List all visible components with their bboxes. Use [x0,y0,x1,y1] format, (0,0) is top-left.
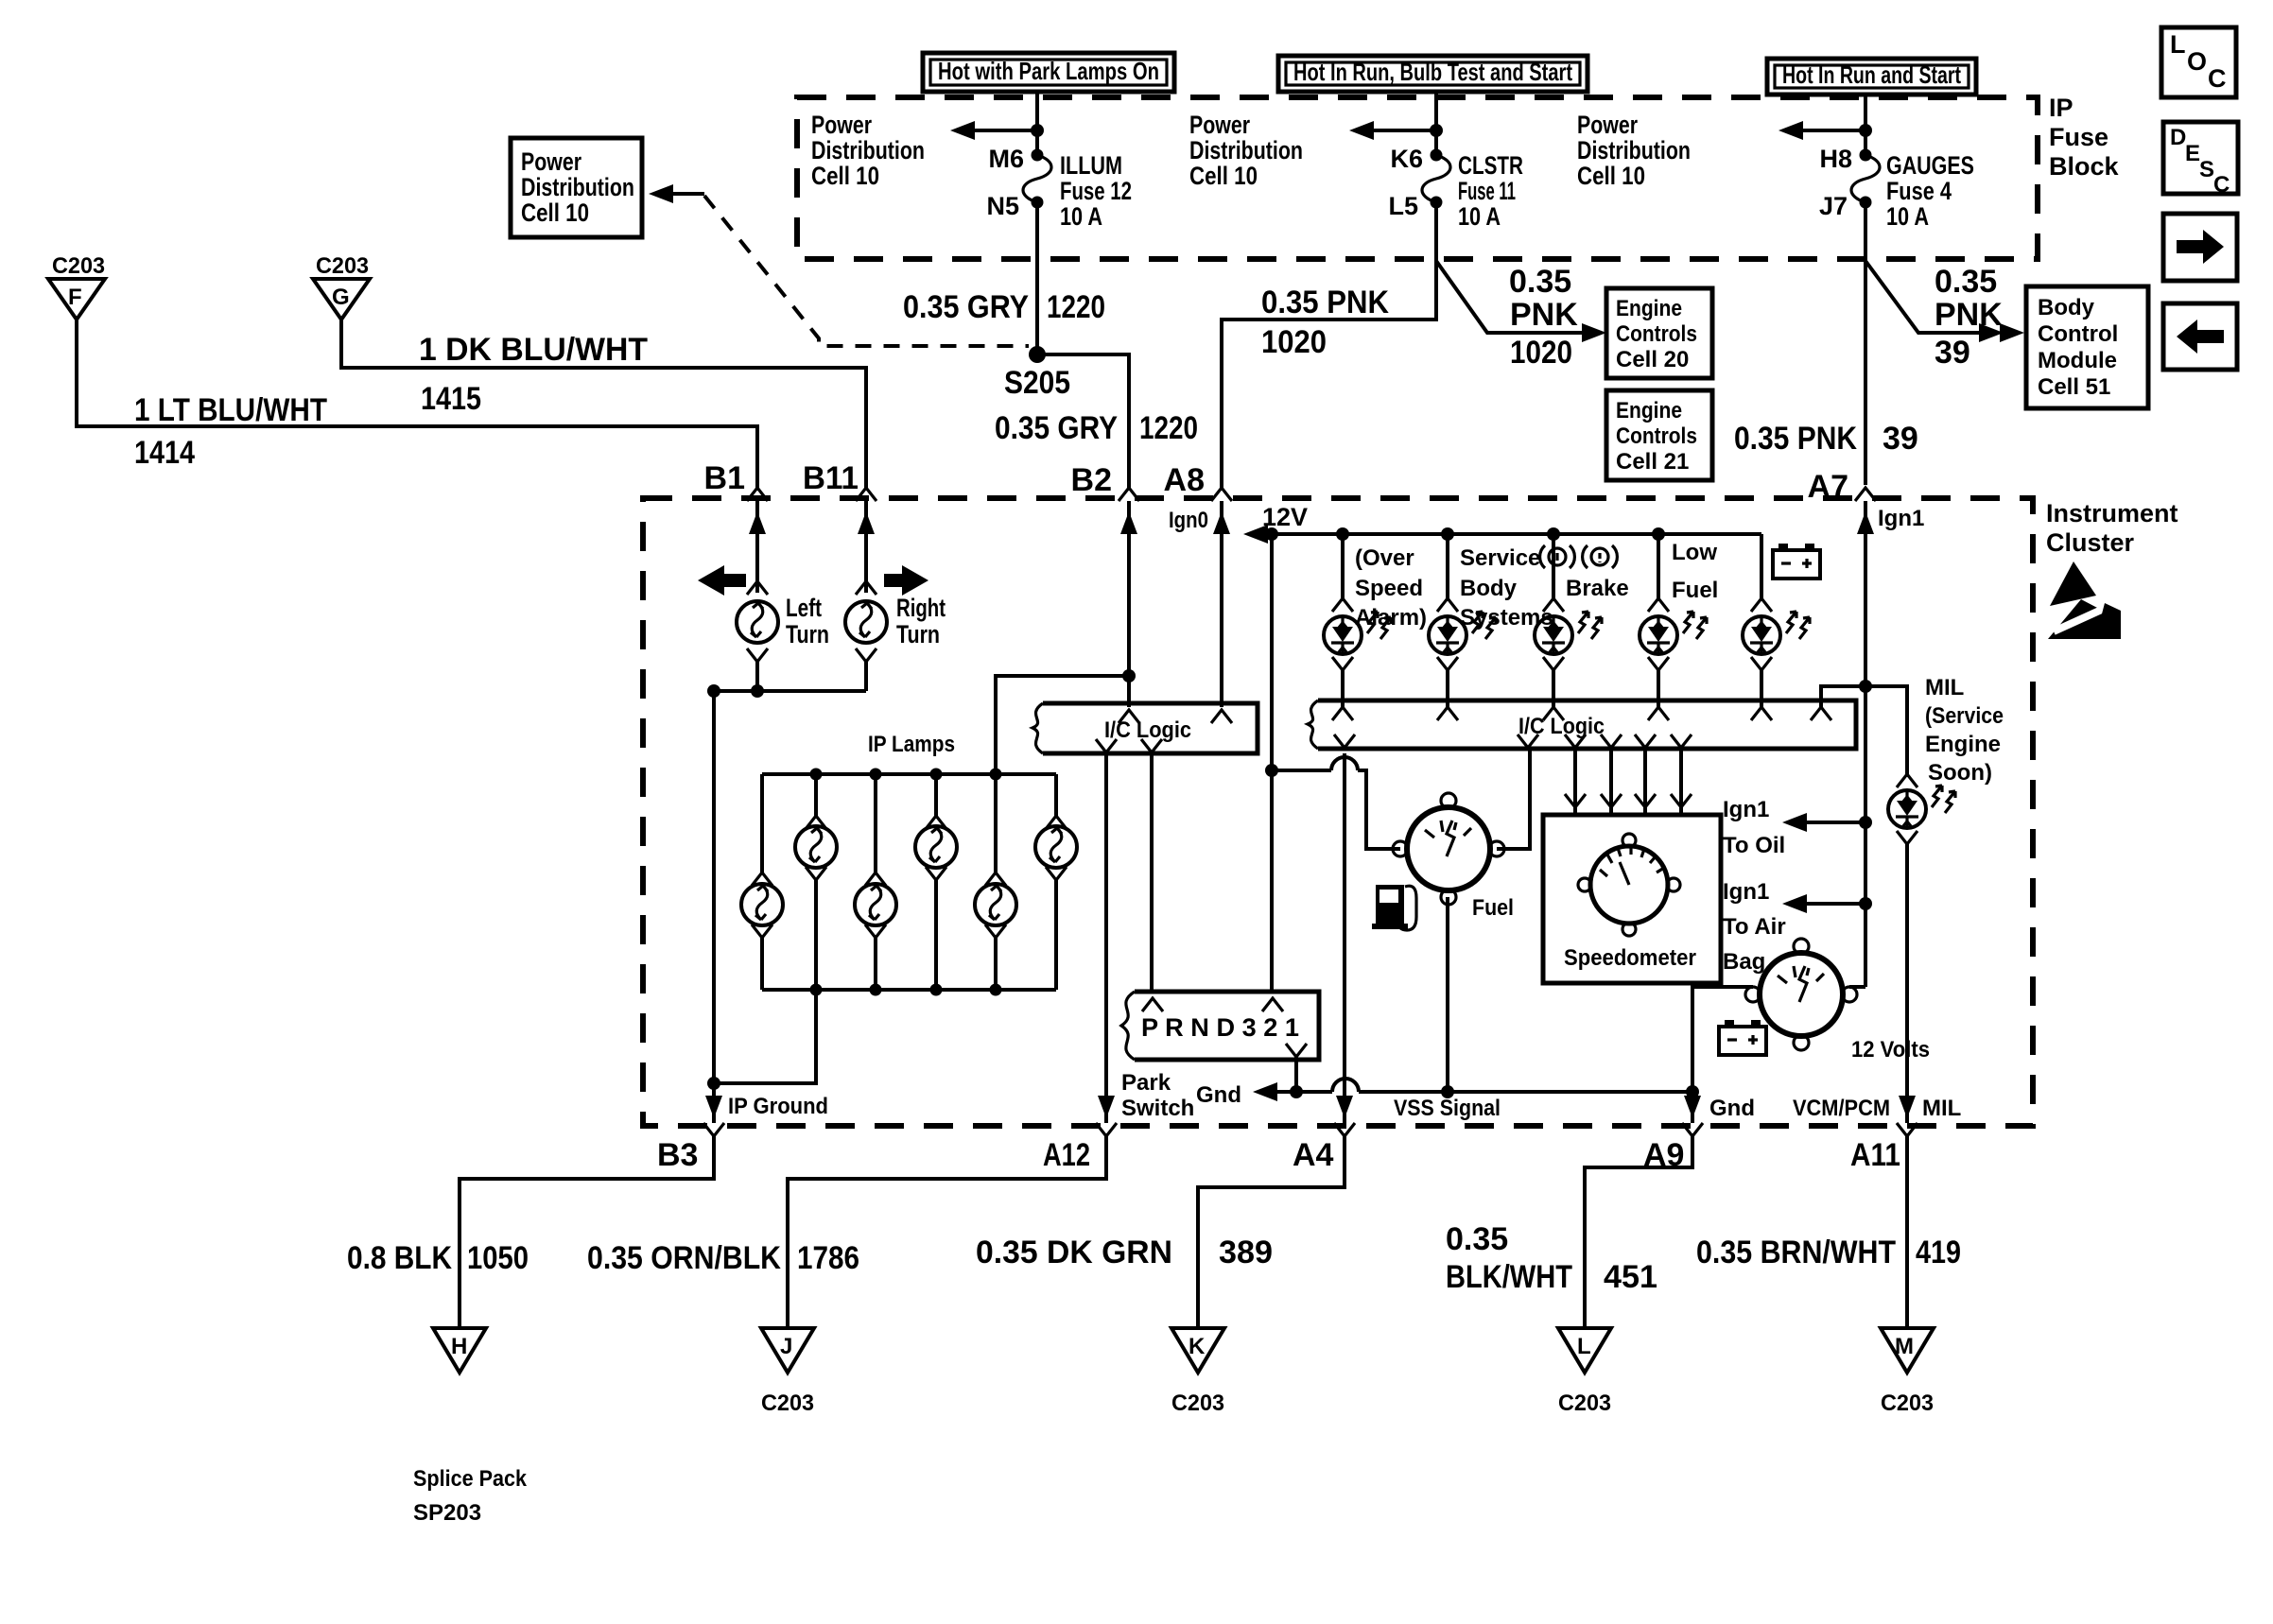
svg-text:C: C [2208,64,2227,93]
svg-text:Hot In Run and Start: Hot In Run and Start [1782,60,1961,89]
pin A12 [1043,1123,1117,1173]
junction dots turn ground [707,684,764,698]
label CLSTR Fuse 11 10 A [1458,151,1523,231]
svg-text:C203: C203 [761,1391,814,1416]
label 0.35 DK GRN 389 [976,1235,1273,1270]
svg-text:D: D [2170,125,2186,150]
box Body Control Module Cell 51 [2026,286,2148,408]
wire A4 to connector K [1198,1133,1345,1328]
label Power Distribution Cell 10 (2) [1189,111,1303,190]
icon brake warning symbols [1540,545,1618,568]
svg-text:VSS Signal: VSS Signal [1394,1096,1501,1121]
svg-text:1050: 1050 [467,1240,529,1276]
svg-text:39: 39 [1883,421,1918,457]
svg-text:Controls: Controls [1616,423,1697,449]
svg-text:0.35 BRN/WHT: 0.35 BRN/WHT [1696,1235,1896,1270]
chevrons into PRND box [1142,998,1307,1057]
label 0.35 BLK/WHT 451 [1446,1221,1657,1295]
label 0.35 BRN/WHT 419 [1696,1235,1961,1270]
chevrons into IC left box [1096,710,1232,752]
svg-text:L5: L5 [1388,192,1418,220]
svg-text:1020: 1020 [1510,335,1572,371]
svg-text:1020: 1020 [1261,324,1327,360]
box Engine Controls Cell 21 [1606,390,1712,480]
svg-text:Cell 10: Cell 10 [1577,162,1645,190]
arrow A4 down [1336,1096,1353,1118]
svg-text:Engine: Engine [1616,296,1682,321]
gauge Fuel [1393,793,1504,905]
icon right turn arrow [884,565,928,596]
svg-text:12V: 12V [1262,503,1308,531]
chevrons out IC right box bottom [1334,734,1692,748]
svg-text:Left: Left [786,594,822,622]
label Ign1 To Oil [1723,797,1785,858]
svg-text:0.35 DK GRN: 0.35 DK GRN [976,1235,1172,1270]
svg-text:Cell 10: Cell 10 [811,162,879,190]
wire B11 to right turn lamp [856,501,876,595]
label MIL (Service Engine Soon) [1925,675,2004,786]
svg-text:IP Ground: IP Ground [728,1094,828,1119]
svg-text:IP: IP [2049,94,2073,122]
legend box right arrow [2163,214,2237,281]
label Right Turn [896,594,946,648]
svg-text:B11: B11 [803,460,859,496]
label IP Fuse Block [2049,94,2120,181]
connector L [1558,1328,1611,1373]
svg-text:0.35: 0.35 [1446,1221,1508,1257]
pin B3 [657,1123,724,1173]
label Park Switch [1121,1070,1194,1121]
LED battery indicator [1743,534,1810,707]
wire G to B11 [341,320,866,491]
svg-text:Distribution: Distribution [1577,136,1691,164]
speedometer dial [1578,834,1680,936]
fuse GAUGES Fuse 4 10A [1851,149,1880,209]
svg-text:Turn: Turn [786,620,829,648]
wires IC logic to speedometer [1565,749,1692,815]
svg-text:A8: A8 [1164,462,1205,498]
box PRND321 (Park Switch) [1121,992,1319,1060]
svg-text:Cell 10: Cell 10 [1189,162,1258,190]
wire fuel bottom pin to gnd [1446,897,1449,1092]
lamp IP6 (leg x=1117 upper row) [1035,774,1077,990]
svg-text:Fuse 11: Fuse 11 [1458,177,1516,205]
svg-text:Ign1: Ign1 [1878,506,1924,531]
svg-text:Control: Control [2038,321,2118,347]
svg-text:1786: 1786 [797,1240,859,1276]
legend box left arrow [2163,303,2237,370]
junction dot Ign1/MIL [1859,680,1872,693]
svg-text:M6: M6 [988,145,1024,173]
legend box LOC [2161,27,2236,97]
svg-text:A12: A12 [1043,1137,1090,1173]
svg-text:N5: N5 [986,192,1019,220]
junction dot gnd [1290,1085,1303,1098]
wire A8 down to IC logic [1213,501,1230,707]
svg-text:To Air: To Air [1723,914,1786,940]
svg-text:L: L [2170,30,2186,59]
svg-text:10 A: 10 A [1886,202,1929,231]
svg-text:Fuse 4: Fuse 4 [1886,177,1952,205]
svg-text:Cell 21: Cell 21 [1616,449,1689,475]
svg-text:Speed: Speed [1355,576,1423,601]
box Engine Controls Cell 20 [1606,288,1712,378]
arrow to Power Distribution [950,121,1037,140]
LED Brake [1535,534,1602,707]
svg-text:Hot In Run, Bulb Test and Star: Hot In Run, Bulb Test and Start [1293,58,1572,86]
svg-text:A7: A7 [1808,469,1848,505]
lamp IP5 (leg x=1053 lower row) [975,774,1016,990]
svg-text:Cell 51: Cell 51 [2038,374,2110,400]
svg-text:0.35 ORN/BLK: 0.35 ORN/BLK [587,1240,781,1276]
wire 12V vertical to PRND [1270,534,1274,992]
junction dots top bus [810,769,1002,781]
svg-text:Body: Body [1460,576,1518,601]
svg-text:S205: S205 [1004,365,1070,401]
arrow Ign1 up [1857,511,1874,534]
lamp IP2 (leg x=863 upper row) [795,774,837,990]
connector C203 G [313,253,370,320]
junction dot fuel feed [1265,764,1278,777]
pin A11 [1850,1123,1917,1173]
wire top bus riser to B2 wire [996,676,1129,774]
junction dot B2/IP lamps [1122,669,1136,682]
svg-text:Bag: Bag [1723,949,1765,975]
svg-text:1 DK BLU/WHT: 1 DK BLU/WHT [419,332,648,368]
svg-text:L: L [1577,1334,1591,1359]
svg-text:Fuel: Fuel [1472,895,1514,921]
svg-text:Distribution: Distribution [811,136,925,164]
label 0.35 GRY 1220 (upper) [903,289,1105,325]
svg-text:Splice Pack: Splice Pack [413,1466,528,1492]
wire B2 down to IC logic [1120,501,1137,707]
svg-text:I/C Logic: I/C Logic [1104,717,1191,743]
label 0.35 PNK (A8 wire) [1261,285,1389,360]
wire Gnd bus to A9 [1296,1090,1692,1094]
wire IP lamps bottom bus [762,988,1056,992]
lamp Right Turn [845,601,887,643]
svg-text:BLK/WHT: BLK/WHT [1446,1259,1572,1295]
svg-text:1415: 1415 [421,381,481,417]
svg-text:Ign1: Ign1 [1723,879,1769,905]
svg-text:Service: Service [1460,545,1540,571]
wire A11 to connector M [1905,1133,1909,1328]
svg-text:Power: Power [811,111,872,139]
label Service Body Systems [1460,545,1553,631]
label 0.35 PNK 39 (A7 wire) [1734,421,1918,457]
dashed link wire to S205 [704,196,1029,346]
hop fuel feed over VSS [1331,757,1358,770]
wire 12V gauge left pin to gnd [1692,987,1753,1092]
wire diagonal to Engine Controls [1436,261,1594,333]
svg-text:Cell 10: Cell 10 [521,199,589,227]
box Power Distribution Cell 10 (left callout) [511,138,642,237]
svg-text:Speedometer: Speedometer [1564,945,1696,971]
wire IP ground rail [712,691,716,1123]
svg-text:Power: Power [521,147,581,176]
wire IP lamps top bus [762,772,1056,776]
svg-text:1414: 1414 [134,435,195,471]
gauge 12 Volts [1745,939,1857,1050]
icon battery (indicator) [1773,544,1820,579]
arrow Ign1 To Air Bag [1782,894,1872,913]
wire S205 to B2 [1037,354,1129,491]
svg-text:Fuse: Fuse [2049,123,2108,151]
label Power Distribution Cell 10 (3) [1577,111,1691,190]
arrow to Power Distribution [1349,121,1436,140]
svg-text:F: F [68,285,82,310]
svg-text:B3: B3 [657,1137,698,1173]
wire IC right to MIL loop [1821,686,1907,777]
svg-text:0.35 PNK: 0.35 PNK [1261,285,1389,320]
junction dots 12V bus [1265,527,1665,541]
wire from header down [1434,92,1438,155]
svg-text:MIL: MIL [1922,1096,1961,1121]
svg-text:(Over: (Over [1355,545,1414,571]
svg-text:A11: A11 [1850,1137,1900,1173]
wire IC left to A12 [1104,753,1108,1123]
svg-text:Fuel: Fuel [1672,578,1718,603]
svg-text:CLSTR: CLSTR [1458,151,1523,180]
header box: Hot In Run and Start [1767,59,1976,95]
label ILLUM Fuse 12 10 A [1060,151,1132,231]
header box: Hot with Park Lamps On [923,53,1174,92]
svg-text:0.35 GRY: 0.35 GRY [903,289,1029,325]
arrow A12 down [1098,1096,1115,1118]
lamp IP4 (leg x=990 upper row) [915,774,957,990]
svg-text:Brake: Brake [1566,576,1629,601]
label 1 DK BLU/WHT 1415 [419,332,648,417]
LED Over Speed Alarm [1324,534,1391,707]
chevrons into IC right box top [1332,707,1831,720]
svg-text:Controls: Controls [1616,321,1697,347]
svg-text:451: 451 [1604,1259,1657,1295]
box Speedometer [1543,815,1721,983]
label Power Distribution Cell 10 (1) [811,111,925,190]
double arrowhead into BCM [1979,323,2024,342]
wire A9 to connector L [1585,1133,1692,1328]
label 0.35 ORN/BLK 1786 [587,1240,859,1276]
icon battery (12 volts) [1719,1020,1766,1055]
svg-text:C: C [2213,172,2230,198]
wire turn lamps ground join [714,648,876,691]
wire from header down [1864,95,1867,155]
svg-text:B1: B1 [704,460,745,496]
LED MIL [1888,774,1955,844]
wire A12 to connector J [788,1133,1106,1328]
pin A7 [1808,469,1876,505]
svg-text:Switch: Switch [1121,1096,1194,1121]
LED Low Fuel [1640,534,1707,707]
wire VSS down to A4 [1343,753,1346,1123]
connector H [433,1328,486,1373]
svg-text:ILLUM: ILLUM [1060,151,1122,180]
svg-text:K6: K6 [1390,145,1423,173]
svg-text:H8: H8 [1819,145,1852,173]
junction dot [1859,124,1872,137]
svg-text:0.35: 0.35 [1935,264,1997,300]
node S205 [1029,346,1046,363]
wire A7 Ign1 rail [1864,501,1867,987]
svg-text:Distribution: Distribution [521,173,634,201]
LED Service Body Systems [1429,534,1496,707]
wire from header down [1035,92,1039,155]
svg-text:0.8 BLK: 0.8 BLK [347,1240,452,1276]
svg-text:Engine: Engine [1616,398,1682,423]
svg-text:E: E [2185,141,2200,166]
arrow A11 down [1899,1096,1916,1118]
wire gnd to A9 [1691,1092,1694,1123]
svg-text:Instrument: Instrument [2046,499,2178,527]
svg-text:419: 419 [1916,1235,1961,1270]
svg-text:Alarm): Alarm) [1355,605,1427,631]
svg-text:10 A: 10 A [1060,202,1102,231]
svg-text:Hot with Park Lamps On: Hot with Park Lamps On [938,57,1159,85]
icon left turn arrow [698,565,746,596]
box I/C Logic right [1308,700,1856,749]
svg-text:Ign0: Ign0 [1169,508,1208,533]
svg-text:Power: Power [1189,111,1250,139]
hop over VSS wire [1332,1079,1359,1092]
svg-text:Gnd: Gnd [1709,1096,1755,1121]
label 0.35 GRY 1220 (lower) [995,410,1198,446]
wire lamps ground drop [714,990,816,1083]
wire 12V gauge right pin to Ign1 [1849,985,1865,989]
ESD symbol [2048,561,2121,639]
arrowhead into Engine Controls [1582,323,1606,342]
svg-text:Cell 20: Cell 20 [1616,347,1689,372]
svg-text:Park: Park [1121,1070,1171,1096]
connector C203 F [48,253,105,320]
fuse ILLUM Fuse 12 10A [1023,149,1051,209]
wire diagonal to Body Control Module [1865,261,1997,333]
arrow from dashed link to Power Distribution box [649,184,704,203]
wire PRND gnd drop [1294,1057,1298,1092]
IP Fuse Block dashed box [797,97,2038,259]
svg-text:A4: A4 [1293,1137,1334,1173]
pin B2 [1071,462,1139,501]
svg-text:Module: Module [2038,348,2117,373]
lamp IP1 (leg x=806 lower row) [741,774,783,990]
fuse CLSTR Fuse 11 10A [1422,149,1450,209]
wire 12V bus [1243,525,1761,544]
svg-text:O: O [2187,47,2207,76]
junction dot [1430,124,1443,137]
svg-text:Body: Body [2038,295,2095,320]
svg-text:Right: Right [896,594,946,622]
label Low Fuel [1672,540,1718,603]
svg-text:S: S [2199,157,2214,182]
connector M [1881,1328,1934,1373]
svg-text:C203: C203 [1558,1391,1611,1416]
svg-text:Block: Block [2049,152,2120,181]
svg-text:1220: 1220 [1047,289,1105,325]
svg-text:SP203: SP203 [413,1500,481,1526]
svg-text:C203: C203 [316,253,369,279]
label 1 LT BLU/WHT 1414 [134,392,327,471]
svg-text:Distribution: Distribution [1189,136,1303,164]
svg-text:Low: Low [1672,540,1717,565]
label Left Turn [786,594,829,648]
junction dot [1031,124,1044,137]
svg-text:Soon): Soon) [1928,760,1992,786]
pin A4 [1293,1123,1355,1173]
svg-text:Gnd: Gnd [1196,1082,1241,1108]
svg-text:J7: J7 [1819,192,1848,220]
label GAUGES Fuse 4 10 A [1886,151,1974,231]
svg-text:0.35 PNK: 0.35 PNK [1734,421,1857,457]
label 0.35 PNK 39 (branch) [1935,264,2003,371]
svg-text:H: H [451,1334,467,1359]
label 0.8 BLK 1050 [347,1240,529,1276]
svg-text:12 Volts: 12 Volts [1851,1037,1930,1063]
label Instrument Cluster [2046,499,2178,557]
svg-text:Fuse 12: Fuse 12 [1060,177,1132,205]
arrow Gnd left [1253,1082,1296,1101]
svg-text:G: G [332,285,350,310]
svg-text:M: M [1895,1334,1914,1359]
svg-text:Turn: Turn [896,620,940,648]
svg-text:VCM/PCM: VCM/PCM [1793,1096,1890,1121]
arrow to Power Distribution [1778,121,1865,140]
wire F to B1 [77,320,757,491]
svg-text:1220: 1220 [1139,410,1198,446]
label (Over Speed Alarm) [1355,545,1427,631]
wire fuse CLSTR down and left to A8 [1222,202,1436,491]
arrow IP Ground [705,1096,722,1118]
junction dots bottom bus [810,984,1002,996]
pin B11 [803,460,876,501]
svg-text:Systems: Systems [1460,605,1553,631]
svg-text:1 LT BLU/WHT: 1 LT BLU/WHT [134,392,327,428]
label Ign1 To Air Bag [1723,879,1786,975]
wire fuse GAUGES down to A7 [1864,202,1867,485]
svg-text:Power: Power [1577,111,1638,139]
svg-text:MIL: MIL [1925,675,1964,700]
wire fuse to S205 [1035,202,1039,354]
legend box DESC [2163,122,2238,198]
svg-text:10 A: 10 A [1458,202,1501,231]
svg-text:(Service: (Service [1925,703,2004,729]
svg-text:389: 389 [1219,1235,1273,1270]
lamp IP3 (leg x=926 lower row) [855,774,896,990]
svg-text:Engine: Engine [1925,732,2001,757]
svg-text:C203: C203 [1171,1391,1224,1416]
svg-text:Ign1: Ign1 [1723,797,1769,822]
icon fuel pump [1372,885,1416,930]
label 0.35 PNK 1020 (branch) [1509,264,1578,371]
svg-text:PNK: PNK [1935,297,2003,333]
svg-text:J: J [780,1334,792,1359]
svg-text:Cluster: Cluster [2046,528,2135,557]
svg-text:PNK: PNK [1510,297,1578,333]
svg-text:B2: B2 [1071,462,1112,498]
label Splice Pack SP203 [413,1466,528,1526]
svg-text:IP Lamps: IP Lamps [868,732,955,757]
pin B1 [704,460,768,501]
wire IC left to PRND P [1150,753,1154,992]
svg-text:P R N D 3 2 1: P R N D 3 2 1 [1141,1013,1299,1042]
pin A8 [1164,462,1232,501]
svg-text:39: 39 [1935,335,1970,371]
junction dot gnd corner [1686,1085,1699,1098]
svg-text:C203: C203 [1881,1391,1934,1416]
connector K [1171,1328,1224,1373]
wire 12V feed to fuel gauge [1272,770,1400,849]
Instrument Cluster dashed box [643,498,2033,1126]
arrow Ign1 To Oil [1782,813,1872,832]
wire fuel right pin to IC logic [1497,749,1530,849]
